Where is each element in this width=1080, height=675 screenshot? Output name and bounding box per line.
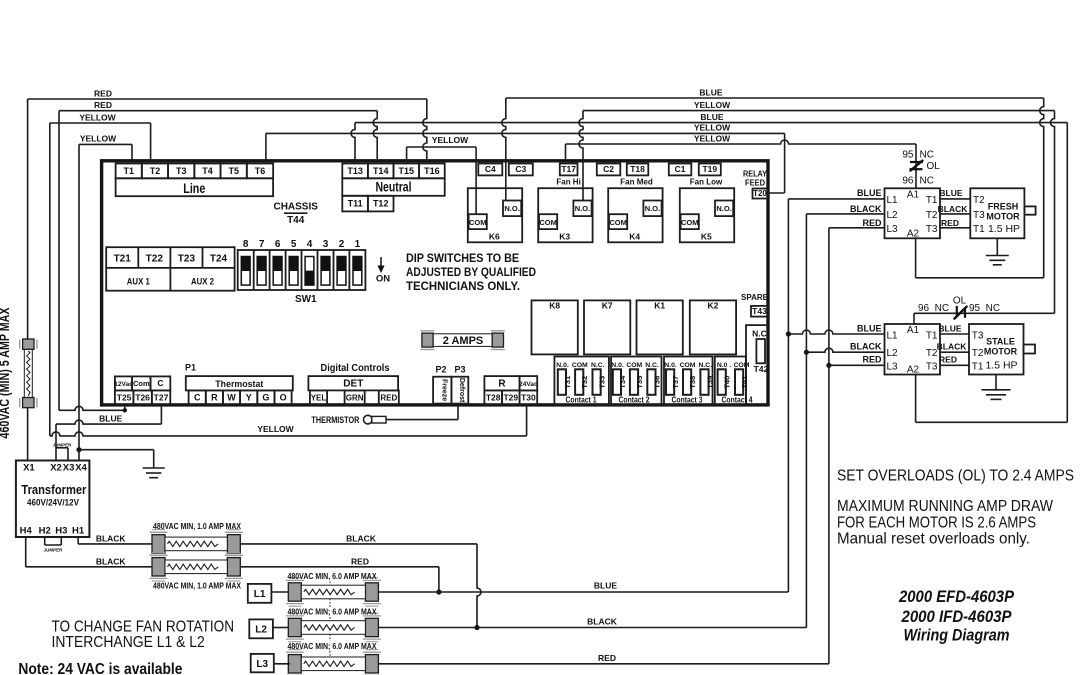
svg-text:RED: RED xyxy=(94,88,112,98)
svg-text:T3: T3 xyxy=(176,166,187,176)
svg-text:T6: T6 xyxy=(255,166,266,176)
svg-text:RED: RED xyxy=(351,556,369,566)
svg-text:T3: T3 xyxy=(926,361,938,372)
svg-text:MOTOR: MOTOR xyxy=(984,346,1018,356)
svg-text:Contact 2: Contact 2 xyxy=(619,396,650,405)
svg-text:SW1: SW1 xyxy=(295,294,317,305)
svg-text:2 AMPS: 2 AMPS xyxy=(443,335,484,347)
svg-text:N.0.: N.0. xyxy=(611,362,624,369)
svg-text:Com: Com xyxy=(133,379,150,388)
svg-text:O: O xyxy=(280,393,287,403)
svg-text:Wiring Diagram: Wiring Diagram xyxy=(904,627,1010,645)
svg-text:T32: T32 xyxy=(580,376,589,389)
svg-text:H1: H1 xyxy=(72,526,85,537)
svg-text:BLACK: BLACK xyxy=(346,534,377,544)
svg-text:T1: T1 xyxy=(973,224,985,235)
svg-text:A2: A2 xyxy=(907,228,920,239)
svg-text:K7: K7 xyxy=(602,301,613,311)
svg-text:Transformer: Transformer xyxy=(21,483,86,497)
svg-text:T26: T26 xyxy=(135,393,150,403)
svg-text:R: R xyxy=(211,393,218,403)
svg-text:A1: A1 xyxy=(907,325,920,336)
svg-text:T34: T34 xyxy=(618,375,627,389)
svg-text:T40: T40 xyxy=(723,376,732,389)
svg-text:T2: T2 xyxy=(973,195,985,206)
svg-text:T25: T25 xyxy=(117,393,132,403)
svg-text:N.0 .: N.0 . xyxy=(717,362,731,369)
svg-text:N.C.: N.C. xyxy=(698,362,712,369)
svg-text:BLACK: BLACK xyxy=(937,341,968,351)
svg-text:T13: T13 xyxy=(347,166,363,176)
svg-text:T19: T19 xyxy=(702,164,717,174)
svg-text:RED: RED xyxy=(941,218,959,228)
svg-text:COM: COM xyxy=(469,218,487,227)
svg-text:RED: RED xyxy=(598,653,616,663)
svg-text:GRN: GRN xyxy=(346,394,364,403)
svg-text:INTERCHANGE L1 & L2: INTERCHANGE L1 & L2 xyxy=(52,634,205,651)
svg-text:T39: T39 xyxy=(706,376,715,389)
svg-text:YELLOW: YELLOW xyxy=(694,123,731,133)
svg-text:K6: K6 xyxy=(489,231,500,241)
svg-text:RED: RED xyxy=(380,394,397,403)
svg-text:Note: 24 VAC is available: Note: 24 VAC is available xyxy=(18,661,182,675)
svg-text:T1: T1 xyxy=(926,331,938,342)
svg-text:1.5 HP: 1.5 HP xyxy=(988,223,1020,235)
svg-text:T20: T20 xyxy=(753,189,767,198)
svg-text:YELLOW: YELLOW xyxy=(694,100,731,110)
svg-text:6: 6 xyxy=(275,239,281,250)
svg-text:BLACK: BLACK xyxy=(96,534,127,544)
svg-text:BLUE: BLUE xyxy=(700,112,723,122)
svg-text:MAXIMUM RUNNING AMP DRAW: MAXIMUM RUNNING AMP DRAW xyxy=(837,498,1053,515)
svg-text:L2: L2 xyxy=(887,210,899,221)
svg-text:C3: C3 xyxy=(515,164,526,174)
svg-text:T37: T37 xyxy=(671,376,680,389)
svg-text:BLACK: BLACK xyxy=(850,341,882,351)
svg-text:T16: T16 xyxy=(424,166,440,176)
svg-text:DIP SWITCHES TO BE: DIP SWITCHES TO BE xyxy=(406,253,519,265)
svg-text:RED: RED xyxy=(862,354,882,364)
svg-text:COM: COM xyxy=(626,362,642,369)
svg-text:RED: RED xyxy=(94,100,112,110)
svg-text:JUMPER: JUMPER xyxy=(44,548,64,553)
svg-text:P3: P3 xyxy=(454,365,465,375)
svg-text:T2: T2 xyxy=(926,210,938,221)
svg-text:P1: P1 xyxy=(185,363,196,373)
svg-text:3: 3 xyxy=(323,239,329,250)
svg-text:H2: H2 xyxy=(39,526,51,537)
svg-text:8: 8 xyxy=(243,239,249,250)
svg-text:C4: C4 xyxy=(485,164,496,174)
svg-text:N.0.: N.0. xyxy=(664,362,677,369)
svg-text:T41: T41 xyxy=(740,376,749,389)
svg-text:A2: A2 xyxy=(907,364,920,375)
svg-text:ON: ON xyxy=(376,274,390,285)
svg-text:THERMISTOR: THERMISTOR xyxy=(311,415,359,426)
svg-text:Digital Controls: Digital Controls xyxy=(321,362,390,374)
svg-text:T1: T1 xyxy=(972,361,984,372)
svg-text:SET OVERLOADS (OL) TO 2.4 AMPS: SET OVERLOADS (OL) TO 2.4 AMPS xyxy=(837,467,1074,484)
svg-text:480VAC MIN, 6.0 AMP MAX: 480VAC MIN, 6.0 AMP MAX xyxy=(288,571,377,581)
svg-text:MOTOR: MOTOR xyxy=(986,211,1020,221)
svg-text:L3: L3 xyxy=(887,361,899,372)
svg-text:FOR EACH MOTOR IS 2.6 AMPS: FOR EACH MOTOR IS 2.6 AMPS xyxy=(837,514,1036,531)
svg-text:K4: K4 xyxy=(629,231,640,241)
svg-text:NC: NC xyxy=(920,150,934,161)
svg-text:Y: Y xyxy=(246,393,252,403)
svg-text:T14: T14 xyxy=(373,166,389,176)
svg-text:RELAY: RELAY xyxy=(743,170,768,179)
svg-text:SPARE: SPARE xyxy=(741,293,769,302)
svg-text:T15: T15 xyxy=(399,166,415,176)
svg-text:T31: T31 xyxy=(563,376,572,389)
svg-text:T27: T27 xyxy=(154,393,169,403)
svg-text:Contact 3: Contact 3 xyxy=(672,396,703,405)
svg-text:Fan Med: Fan Med xyxy=(620,178,653,187)
svg-text:G: G xyxy=(262,393,269,403)
svg-text:C1: C1 xyxy=(675,164,686,174)
svg-text:480VAC MIN, 1.0 AMP MAX: 480VAC MIN, 1.0 AMP MAX xyxy=(153,521,241,531)
svg-text:480VAC MIN, 1.0 AMP MAX: 480VAC MIN, 1.0 AMP MAX xyxy=(153,580,241,590)
svg-text:BLUE: BLUE xyxy=(939,188,962,198)
svg-text:Manual reset overloads only.: Manual reset overloads only. xyxy=(837,530,1030,547)
svg-text:COM: COM xyxy=(680,362,696,369)
svg-text:K3: K3 xyxy=(559,231,570,241)
svg-text:COM: COM xyxy=(539,218,557,227)
svg-text:T44: T44 xyxy=(287,215,305,226)
svg-text:YELLOW: YELLOW xyxy=(79,112,116,122)
svg-text:BLUE: BLUE xyxy=(699,87,722,97)
svg-text:T11: T11 xyxy=(348,199,363,209)
svg-text:Line: Line xyxy=(183,181,205,196)
svg-text:7: 7 xyxy=(259,239,265,250)
svg-text:BLUE: BLUE xyxy=(594,581,617,591)
svg-text:AUX 2: AUX 2 xyxy=(191,276,214,287)
svg-text:COM: COM xyxy=(734,362,750,369)
svg-text:T1: T1 xyxy=(123,166,134,176)
svg-text:T5: T5 xyxy=(228,166,239,176)
svg-text:Freeze: Freeze xyxy=(440,379,447,401)
svg-text:96: 96 xyxy=(902,176,914,187)
svg-text:X3: X3 xyxy=(63,462,75,473)
svg-text:2000 EFD-4603P: 2000 EFD-4603P xyxy=(898,588,1015,606)
svg-text:YELLOW: YELLOW xyxy=(694,133,731,143)
svg-text:T1: T1 xyxy=(926,195,938,206)
svg-text:W: W xyxy=(227,393,236,403)
svg-text:COM: COM xyxy=(681,218,699,227)
svg-text:Defrost: Defrost xyxy=(458,378,465,403)
svg-text:T21: T21 xyxy=(114,254,132,265)
svg-text:95: 95 xyxy=(902,150,914,161)
svg-text:YELLOW: YELLOW xyxy=(257,424,294,434)
svg-text:T28: T28 xyxy=(486,393,501,403)
svg-text:X2: X2 xyxy=(50,462,62,473)
svg-text:R: R xyxy=(498,379,506,390)
svg-text:P2: P2 xyxy=(435,365,446,375)
svg-text:5: 5 xyxy=(291,239,297,250)
svg-text:RED: RED xyxy=(939,354,957,364)
svg-text:BLACK: BLACK xyxy=(850,204,882,214)
svg-text:N.O.: N.O. xyxy=(575,204,590,213)
svg-text:T3: T3 xyxy=(926,224,938,235)
svg-text:T36: T36 xyxy=(652,376,661,389)
svg-text:T29: T29 xyxy=(503,393,518,403)
svg-text:COM: COM xyxy=(572,362,588,369)
svg-text:Contact 1: Contact 1 xyxy=(566,396,597,405)
svg-text:YELLOW: YELLOW xyxy=(80,134,117,144)
svg-text:OL: OL xyxy=(927,161,941,172)
svg-text:TECHNICIANS ONLY.: TECHNICIANS ONLY. xyxy=(406,281,520,293)
svg-text:L2: L2 xyxy=(887,348,899,359)
svg-text:K2: K2 xyxy=(708,301,719,311)
svg-text:Fan Hi: Fan Hi xyxy=(556,178,580,187)
svg-text:N.0.: N.0. xyxy=(556,362,569,369)
svg-text:C: C xyxy=(194,393,201,403)
svg-text:T42: T42 xyxy=(754,364,769,374)
svg-text:H3: H3 xyxy=(55,526,67,537)
svg-text:T2: T2 xyxy=(972,348,984,359)
svg-text:1: 1 xyxy=(355,239,361,250)
svg-text:TO CHANGE FAN ROTATION: TO CHANGE FAN ROTATION xyxy=(52,619,235,636)
svg-text:CHASSIS: CHASSIS xyxy=(273,201,318,212)
svg-text:RED: RED xyxy=(862,218,882,228)
svg-text:X4: X4 xyxy=(75,462,87,473)
svg-text:DET: DET xyxy=(343,379,363,390)
svg-text:N.C: N.C xyxy=(752,329,767,339)
svg-text:T24: T24 xyxy=(210,254,228,265)
svg-text:T35: T35 xyxy=(635,376,644,389)
svg-text:N.O.: N.O. xyxy=(716,204,731,213)
svg-text:STALE: STALE xyxy=(986,336,1015,346)
svg-text:C2: C2 xyxy=(603,164,614,174)
svg-text:T43: T43 xyxy=(752,306,767,316)
svg-text:YELLOW: YELLOW xyxy=(432,135,469,145)
svg-text:COM: COM xyxy=(609,218,627,227)
svg-text:N.C.: N.C. xyxy=(645,362,659,369)
svg-text:L3: L3 xyxy=(256,659,268,670)
svg-text:T38: T38 xyxy=(688,376,697,389)
svg-text:N.C.: N.C. xyxy=(591,362,605,369)
svg-text:2: 2 xyxy=(339,239,345,250)
svg-text:BLACK: BLACK xyxy=(938,204,969,214)
svg-text:Contact 4: Contact 4 xyxy=(722,396,753,405)
svg-text:24Vac: 24Vac xyxy=(519,381,538,388)
svg-text:480VAC MIN; 6.0 AMP MAX: 480VAC MIN; 6.0 AMP MAX xyxy=(288,607,377,617)
svg-text:T17: T17 xyxy=(561,164,576,174)
svg-text:Fan Low: Fan Low xyxy=(690,178,723,187)
svg-text:JUMPER: JUMPER xyxy=(53,442,73,447)
svg-text:BLUE: BLUE xyxy=(857,323,882,333)
svg-text:460V/24V/12V: 460V/24V/12V xyxy=(27,498,80,509)
svg-text:12Vac: 12Vac xyxy=(114,381,133,388)
svg-text:L1: L1 xyxy=(887,331,899,342)
svg-text:NC: NC xyxy=(920,176,934,187)
svg-text:FEED: FEED xyxy=(745,179,765,188)
svg-text:BLUE: BLUE xyxy=(938,323,961,333)
svg-text:2000 IFD-4603P: 2000 IFD-4603P xyxy=(901,608,1013,626)
svg-text:T33: T33 xyxy=(598,376,607,389)
svg-text:95 NC: 95 NC xyxy=(969,303,1000,314)
svg-text:FRESH: FRESH xyxy=(988,201,1019,211)
svg-text:L2: L2 xyxy=(255,625,267,636)
svg-text:T3: T3 xyxy=(973,210,985,221)
svg-text:4: 4 xyxy=(307,239,313,250)
svg-text:480VAC MIN; 6.0 AMP MAX: 480VAC MIN; 6.0 AMP MAX xyxy=(288,641,377,651)
svg-text:T2: T2 xyxy=(150,166,161,176)
svg-text:A1: A1 xyxy=(907,189,920,200)
svg-text:BLACK: BLACK xyxy=(587,617,618,627)
svg-text:T22: T22 xyxy=(146,254,164,265)
svg-text:1.5 HP: 1.5 HP xyxy=(985,360,1017,372)
svg-text:N.O.: N.O. xyxy=(645,204,660,213)
svg-text:H4: H4 xyxy=(20,526,33,537)
svg-text:AUX 1: AUX 1 xyxy=(127,276,151,287)
svg-text:BLUE: BLUE xyxy=(857,188,882,198)
svg-text:OL: OL xyxy=(953,295,967,306)
svg-text:K1: K1 xyxy=(654,301,665,311)
svg-text:N.O.: N.O. xyxy=(504,204,519,213)
svg-text:Neutral: Neutral xyxy=(376,179,412,194)
svg-text:X1: X1 xyxy=(23,462,35,473)
svg-text:96 NC: 96 NC xyxy=(918,303,949,314)
svg-text:T4: T4 xyxy=(202,166,213,176)
svg-text:Thermostat: Thermostat xyxy=(215,379,264,390)
svg-text:T23: T23 xyxy=(178,254,196,265)
svg-text:460VAC (MIN) 5 AMP MAX: 460VAC (MIN) 5 AMP MAX xyxy=(0,308,12,439)
svg-text:C: C xyxy=(157,378,163,388)
svg-text:ADJUSTED BY QUALIFIED: ADJUSTED BY QUALIFIED xyxy=(406,267,536,279)
svg-text:L1: L1 xyxy=(254,589,266,600)
svg-text:L1: L1 xyxy=(887,195,899,206)
svg-text:T18: T18 xyxy=(630,164,645,174)
svg-text:K5: K5 xyxy=(701,231,712,241)
svg-text:T30: T30 xyxy=(521,393,536,403)
svg-text:T3: T3 xyxy=(972,331,984,342)
svg-text:YEL: YEL xyxy=(311,394,327,403)
svg-text:L3: L3 xyxy=(887,224,899,235)
svg-text:BLUE: BLUE xyxy=(99,413,122,423)
svg-text:T12: T12 xyxy=(373,199,389,209)
svg-text:BLACK: BLACK xyxy=(96,556,127,566)
svg-text:K8: K8 xyxy=(549,301,560,311)
